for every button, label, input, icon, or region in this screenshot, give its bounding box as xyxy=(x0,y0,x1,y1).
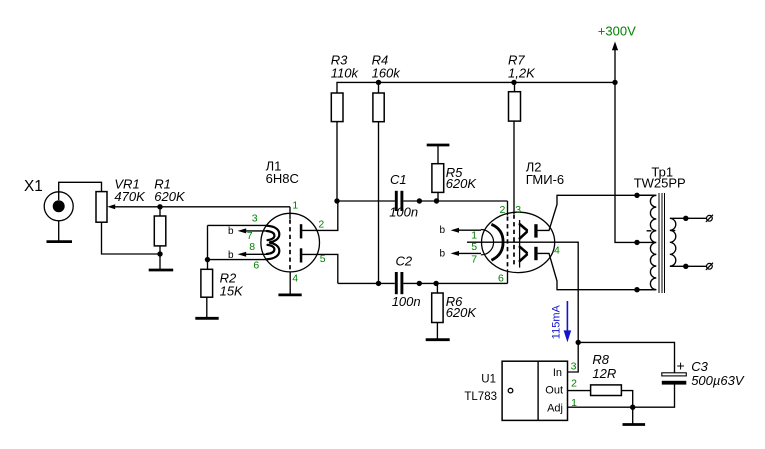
node C1 row a xyxy=(417,198,422,203)
ground (X1) xyxy=(47,240,73,243)
svg-text:+: + xyxy=(677,358,685,374)
svg-text:1: 1 xyxy=(471,230,477,242)
tube Л2 ГМИ-6 envelope xyxy=(481,212,554,272)
svg-text:100n: 100n xyxy=(389,205,418,220)
+300V supply arrow xyxy=(598,24,636,83)
svg-text:+300V: +300V xyxy=(598,24,636,39)
svg-text:12R: 12R xyxy=(592,366,616,381)
resistor R7 xyxy=(508,53,536,122)
transformer Тр1 TW25PP xyxy=(634,165,686,191)
svg-text:5: 5 xyxy=(471,241,477,253)
node R4/C2 row xyxy=(376,281,381,286)
svg-text:6: 6 xyxy=(253,259,259,271)
resistor R4 xyxy=(372,53,402,122)
Л2 grid 2 dashed xyxy=(513,215,515,268)
node cathode junction xyxy=(576,340,581,345)
wire R1 bottom to ground xyxy=(159,246,161,269)
wire R6 bottom lead xyxy=(436,323,438,340)
resistor R1 xyxy=(154,176,186,246)
wire anode bottom to transformer xyxy=(538,253,657,289)
node Тр1 primary tap xyxy=(634,240,639,245)
svg-text:ГМИ-6: ГМИ-6 xyxy=(526,172,564,187)
wire R1 top to tube pin 1 xyxy=(160,206,290,208)
wire R8 right to Adj node xyxy=(621,391,632,408)
wire R6 top lead xyxy=(436,283,438,293)
wire pin 3 (cathode top) xyxy=(208,224,268,226)
wire R5 bottom lead xyxy=(437,192,439,201)
capacitor C3 xyxy=(662,358,745,389)
Л1 heater top hook xyxy=(267,231,275,240)
svg-text:b: b xyxy=(440,248,446,259)
svg-text:6: 6 xyxy=(498,273,504,285)
svg-text:3: 3 xyxy=(252,213,258,225)
wire C1 row right xyxy=(403,200,507,202)
current label 115mA xyxy=(551,301,572,342)
output terminal bottom xyxy=(706,263,713,270)
wire pin 6 stub xyxy=(507,269,509,283)
ground (R2) xyxy=(195,317,218,320)
svg-text:TW25PP: TW25PP xyxy=(634,176,686,191)
Тр1 secondary phase tick xyxy=(670,230,675,232)
wire R4 top lead xyxy=(378,82,380,93)
svg-text:620K: 620K xyxy=(446,305,478,320)
Л1 cathode top outer xyxy=(267,226,280,243)
Л1 cathode bottom outer xyxy=(267,243,280,260)
connector X1 xyxy=(24,178,73,221)
Тр1 primary phase tick xyxy=(647,230,652,232)
wire R2 bottom xyxy=(206,297,208,317)
regulator U1 TL783 xyxy=(464,360,577,420)
wire junction to C3 top xyxy=(578,342,674,372)
svg-text:b: b xyxy=(228,226,234,237)
resistor R6 xyxy=(432,293,478,323)
heater b arrow pin 8 xyxy=(228,250,267,261)
Тр1 secondary winding xyxy=(670,218,707,266)
Л1 anode bottom plate xyxy=(300,248,303,262)
svg-text:b: b xyxy=(440,225,446,236)
Тр1 primary winding xyxy=(637,195,656,289)
node R3/C1 row xyxy=(334,198,339,203)
node secondary top xyxy=(683,216,688,221)
heater b arrow Л2 pin 1 xyxy=(440,225,482,236)
svg-text:6Н8С: 6Н8С xyxy=(266,171,299,186)
Л2 filament circle xyxy=(481,230,494,255)
node secondary bottom xyxy=(683,264,688,269)
node Тр1 primary top xyxy=(634,193,639,198)
svg-text:620K: 620K xyxy=(446,176,478,191)
svg-text:U1: U1 xyxy=(481,374,496,386)
wire R5 top lead xyxy=(437,146,439,164)
wire U1 Out to R8 xyxy=(568,390,591,392)
wire R7 bottom to grid 2 xyxy=(513,121,515,214)
resistor R3 xyxy=(331,53,360,122)
wire X1 top to VR1 top xyxy=(59,182,102,200)
heater b arrow Л2 pin 7 xyxy=(440,248,482,259)
wire wiper to R1 top xyxy=(115,206,161,208)
ground (Adj) xyxy=(623,423,646,426)
Л2 beam plate line xyxy=(519,220,521,268)
node C2 row a xyxy=(417,281,422,286)
node C2 row R6 xyxy=(433,281,438,286)
output terminal top xyxy=(706,215,713,222)
svg-text:Out: Out xyxy=(545,385,563,397)
wire pin 5 (anode bottom to C2 row) xyxy=(302,254,338,283)
node Тр1 primary bottom xyxy=(634,287,639,292)
wire pin 2 (anode top to C1 row) xyxy=(302,201,338,230)
wire C2 row right xyxy=(403,282,507,284)
wire R4 long vertical xyxy=(378,122,380,284)
wire pin 6 (cathode bottom) xyxy=(208,259,268,261)
tube U Л1 6Н8С envelope xyxy=(261,213,320,272)
svg-text:160k: 160k xyxy=(372,66,402,81)
wire top supply rail xyxy=(337,82,615,93)
node R1 top xyxy=(157,204,162,209)
svg-text:C1: C1 xyxy=(390,172,407,187)
Л2 screen chevron bottom xyxy=(520,247,527,261)
wire anode top to transformer xyxy=(538,195,657,230)
wire C1 row left xyxy=(337,200,395,202)
svg-text:2: 2 xyxy=(571,378,577,390)
svg-text:15K: 15K xyxy=(220,284,244,299)
wire Adj node to ground xyxy=(632,407,634,424)
ground (Л1 pin 4) xyxy=(278,293,301,296)
wire junction to U1 In xyxy=(568,342,579,372)
ground rail tap above R5 xyxy=(427,144,450,147)
Тр1 core xyxy=(659,193,664,293)
node R1 bottom xyxy=(157,251,162,256)
svg-text:3: 3 xyxy=(571,360,577,372)
svg-text:4: 4 xyxy=(554,245,560,257)
svg-text:4: 4 xyxy=(292,273,298,285)
node Adj xyxy=(630,405,635,410)
wire R7 top lead xyxy=(514,82,516,91)
heater b arrow pin 7 xyxy=(228,226,267,237)
wire +300V down to transformer tap xyxy=(615,82,637,242)
svg-text:7: 7 xyxy=(471,254,477,266)
svg-text:2: 2 xyxy=(500,204,506,216)
svg-text:470K: 470K xyxy=(114,189,146,204)
Л2 screen chevron top xyxy=(520,224,527,238)
Л2 anode bottom plate xyxy=(534,247,537,260)
svg-text:8: 8 xyxy=(249,241,255,253)
resistor R8 xyxy=(591,352,622,396)
resistor R5 xyxy=(432,164,477,193)
resistor R2 xyxy=(201,269,244,298)
svg-text:100n: 100n xyxy=(392,294,421,309)
node +300V rail xyxy=(612,80,617,85)
VR1 wiper arrow xyxy=(107,204,115,209)
svg-text:620K: 620K xyxy=(154,189,186,204)
wire pin 4 to ground xyxy=(289,272,291,294)
ground (R6) xyxy=(426,338,450,341)
wire pin 5 center stub xyxy=(467,241,554,243)
wire pin 2 stub xyxy=(507,201,509,216)
svg-text:500µ63V: 500µ63V xyxy=(691,373,745,388)
Л1 heater bottom hook xyxy=(267,245,275,254)
Л2 cathode arc xyxy=(491,224,503,260)
ground (R1) xyxy=(149,269,174,272)
svg-text:C3: C3 xyxy=(691,359,708,374)
svg-text:R8: R8 xyxy=(592,352,609,367)
svg-text:2: 2 xyxy=(318,218,324,230)
Л2 grid 1 dashed xyxy=(507,217,509,270)
Л1 anode top plate xyxy=(300,224,303,238)
wire VR1 bottom to R1 bottom xyxy=(102,222,161,254)
svg-text:110k: 110k xyxy=(331,66,360,81)
node C1 row R5 xyxy=(434,198,439,203)
wire X1 bottom to ground xyxy=(58,221,60,241)
capacitor C2 xyxy=(392,253,421,309)
node R4 rail xyxy=(376,80,381,85)
svg-text:1,2K: 1,2K xyxy=(508,66,536,81)
node R7 rail xyxy=(511,80,516,85)
svg-text:Adj: Adj xyxy=(547,403,563,415)
svg-text:3: 3 xyxy=(515,204,521,216)
svg-text:115mA: 115mA xyxy=(551,305,563,340)
wire R1 top lead xyxy=(159,207,161,216)
svg-text:b: b xyxy=(228,250,234,261)
potentiometer VR1 xyxy=(96,176,146,222)
Л1 grid (pin 1) dashed xyxy=(289,207,291,219)
svg-text:TL783: TL783 xyxy=(464,391,497,403)
Л2 anode top plate xyxy=(534,224,537,237)
wire C2 row left xyxy=(338,282,395,284)
wire U1 Adj to C3 bottom xyxy=(568,384,675,407)
wire R2 top lead xyxy=(207,260,209,270)
wire R3 bottom lead xyxy=(336,122,338,201)
svg-text:C2: C2 xyxy=(396,253,413,268)
svg-text:X1: X1 xyxy=(24,178,43,195)
node pin6/R2 xyxy=(205,257,210,262)
wire cathode pin 4 down xyxy=(554,242,579,342)
wire left vertical pin3-pin6 xyxy=(207,225,209,259)
svg-text:1: 1 xyxy=(292,199,298,211)
svg-text:In: In xyxy=(553,367,562,379)
svg-text:5: 5 xyxy=(320,253,326,265)
capacitor C1 xyxy=(389,172,418,220)
